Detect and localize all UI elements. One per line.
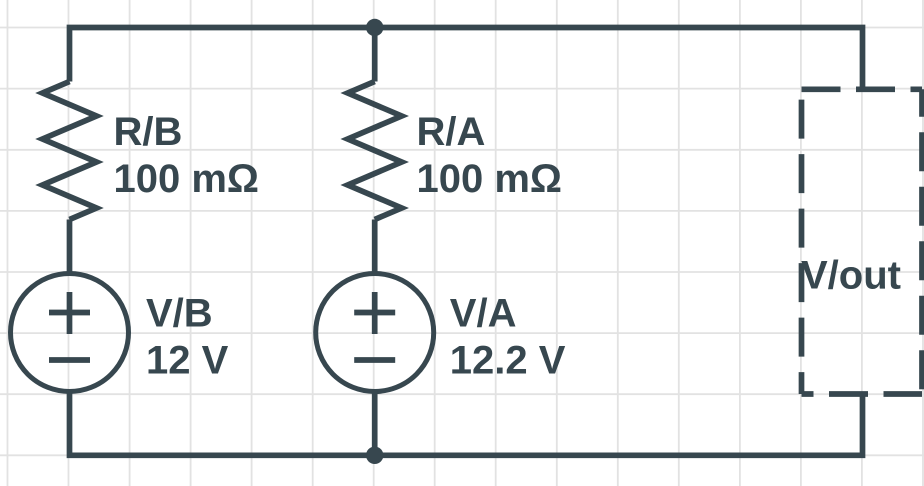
voltage source V/B <box>11 274 129 392</box>
svg-text:R/B: R/B <box>114 110 183 154</box>
wire R/B to V/B <box>67 220 73 275</box>
resistor R/B <box>43 82 97 220</box>
voltmeter probe V/out dashed box <box>802 89 923 394</box>
wire bottom rail with left lead and right drop <box>70 391 863 455</box>
label source name V/B <box>146 291 213 335</box>
label source value 12 V <box>146 339 229 383</box>
label resistor value 100 mΩ <box>417 157 563 201</box>
wire middle branch top lead <box>372 28 378 82</box>
label source value 12.2 V <box>450 339 566 383</box>
wire V/A to bottom rail <box>372 391 378 455</box>
svg-text:100 mΩ: 100 mΩ <box>417 157 563 201</box>
svg-text:R/A: R/A <box>417 110 486 154</box>
label resistor name R/A <box>417 110 486 154</box>
svg-text:12 V: 12 V <box>146 339 229 383</box>
svg-text:12.2 V: 12.2 V <box>450 339 566 383</box>
label resistor value 100 mΩ <box>114 157 260 201</box>
wire top rail with left lead and right drop <box>70 28 863 92</box>
voltage source V/A <box>316 274 434 392</box>
svg-text:V/A: V/A <box>450 292 517 336</box>
label probe name V/out <box>801 253 901 297</box>
label source name V/A <box>450 292 517 336</box>
svg-text:100 mΩ: 100 mΩ <box>114 157 260 201</box>
resistor R/A <box>348 82 402 220</box>
svg-text:V/out: V/out <box>801 253 901 297</box>
junction node bottom <box>366 447 383 464</box>
junction node top <box>366 19 383 36</box>
svg-text:V/B: V/B <box>146 291 213 335</box>
label resistor name R/B <box>114 110 183 154</box>
wire R/A to V/A <box>372 220 378 275</box>
